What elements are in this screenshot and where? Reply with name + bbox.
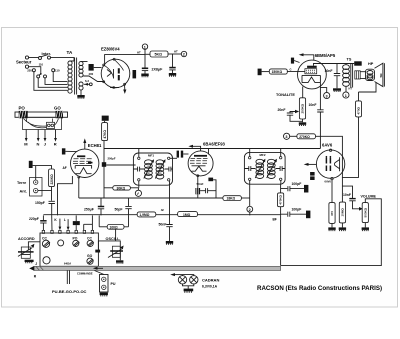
MF2 secondary capacitor xyxy=(276,166,285,171)
svg-text:R: R xyxy=(54,142,57,147)
bus B line xyxy=(43,214,280,216)
resistor 470 vertical xyxy=(329,203,335,228)
svg-text:AF: AF xyxy=(161,208,165,212)
svg-text:CC: CC xyxy=(87,236,92,240)
resistor 47K vertical xyxy=(102,121,108,141)
svg-text:BF: BF xyxy=(273,218,277,222)
wire V1 top to node1 xyxy=(105,55,145,65)
tube V3 internal electrodes xyxy=(190,156,208,171)
svg-text:1: 1 xyxy=(345,94,347,98)
grid stopper resistor 150K xyxy=(258,68,305,76)
tube V2 grid tag left xyxy=(62,148,77,154)
dial lamps arrow xyxy=(170,273,182,276)
lead-out arrow M xyxy=(24,130,28,147)
resistor 1M on bus B xyxy=(161,208,198,217)
accord variable capacitor xyxy=(18,242,40,258)
wire V2 grid return to left and bus B xyxy=(58,176,73,215)
antenna block box xyxy=(23,117,62,129)
plate capacitor 10nF xyxy=(325,64,341,89)
svg-text:6BA6/EF93: 6BA6/EF93 xyxy=(203,141,226,146)
wire to MF1 primary xyxy=(106,164,135,166)
svg-text:220pF: 220pF xyxy=(29,217,39,221)
tube V3 AVC arrow xyxy=(188,145,200,151)
svg-text:RACSON (Ets Radio Construction: RACSON (Ets Radio Constructions PARIS) xyxy=(257,285,382,292)
svg-text:3: 3 xyxy=(326,94,328,98)
svg-text:18KΩ: 18KΩ xyxy=(227,197,236,201)
svg-text:CC: CC xyxy=(42,236,47,240)
arrow L into gang xyxy=(64,218,70,230)
svg-text:EZ80/6V4: EZ80/6V4 xyxy=(101,47,120,52)
wire mains to switch xyxy=(29,57,39,59)
svg-text:ACCORD: ACCORD xyxy=(18,237,35,241)
svg-text:1,9MΩ: 1,9MΩ xyxy=(139,213,149,217)
filter capacitor 2x8uF first xyxy=(142,55,163,74)
tube V4 grid arrow xyxy=(304,163,317,166)
arrow on shaft left xyxy=(93,267,103,270)
capacitor 10nF to volume xyxy=(342,186,363,211)
resistor 5K xyxy=(145,51,168,57)
svg-text:GO: GO xyxy=(87,254,93,258)
wire resistor to node 2 xyxy=(168,53,181,55)
wire 220pF branch into gang xyxy=(29,215,47,230)
ground under volume xyxy=(362,227,369,231)
MF1 primary capacitor xyxy=(133,167,144,172)
svg-text:6AV6: 6AV6 xyxy=(325,180,332,184)
wire MF1 top-right to 6BA6 grid tag xyxy=(170,157,177,159)
capacitor 100pF lower BF xyxy=(273,207,307,221)
svg-text:Ant.: Ant. xyxy=(20,189,27,193)
svg-text:PO: PO xyxy=(73,236,78,240)
tube V1 anode plates xyxy=(118,68,120,80)
svg-text:110: 110 xyxy=(55,69,60,73)
wire V5 g1 down to tone pot xyxy=(302,87,304,98)
IF transformer MF2 box xyxy=(244,152,285,184)
coil L-GO on rod xyxy=(56,111,64,118)
antenna connector box xyxy=(47,122,55,128)
tuning gang block xyxy=(40,233,98,266)
tube V2 envelope xyxy=(71,149,99,177)
tube V5 grid mesh xyxy=(305,69,317,74)
wire MF2 bottom-left down to node 2 xyxy=(249,181,251,207)
svg-text:Terre: Terre xyxy=(17,181,26,185)
gang terminal row xyxy=(42,230,93,233)
svg-text:6,3V/0,1A: 6,3V/0,1A xyxy=(202,285,218,289)
svg-text:HT: HT xyxy=(349,87,353,91)
filter capacitor 2x8uF second xyxy=(169,54,175,73)
connector tag lower 100pF xyxy=(306,211,310,219)
wire volume top to BF lamp line xyxy=(281,199,382,266)
svg-text:470KΩ: 470KΩ xyxy=(279,194,283,204)
wire tap 130 to primary xyxy=(38,78,67,87)
resistor 100ohm oscillator xyxy=(99,215,128,229)
connector blob under 10nF xyxy=(333,88,341,92)
rectifier tube V1 envelope xyxy=(101,59,130,88)
svg-text:TA: TA xyxy=(67,50,73,55)
tube V5 6BM5 input arrow xyxy=(299,53,314,60)
connector tag above 47K xyxy=(102,116,109,121)
capacitor 50nF at MF1 return xyxy=(159,222,173,241)
lamps common to ground xyxy=(183,284,194,289)
wire MF1 bottom-left to node f xyxy=(138,181,140,188)
TS top connector tag xyxy=(354,61,362,65)
resistor 18K on bus A xyxy=(223,196,250,201)
svg-text:OSCILL.: OSCILL. xyxy=(106,237,121,241)
ground below TA xyxy=(77,95,84,99)
mains voltage tap terminals 110/130/220 xyxy=(27,62,60,78)
svg-text:VOLUME: VOLUME xyxy=(361,194,377,198)
ground under accord trimmer xyxy=(25,260,34,264)
ferrite rod xyxy=(15,112,68,117)
svg-text:270KΩ: 270KΩ xyxy=(299,135,310,139)
svg-text:10nF: 10nF xyxy=(343,193,351,197)
svg-text:5Ω: 5Ω xyxy=(379,73,383,78)
svg-text:20nF: 20nF xyxy=(278,108,286,112)
svg-text:150pF: 150pF xyxy=(35,201,45,205)
feedback wire 270K to 470ohm xyxy=(316,117,359,177)
svg-text:1MΩ: 1MΩ xyxy=(183,213,191,217)
connector tag HT xyxy=(89,64,94,71)
oscillator padding capacitor xyxy=(95,229,123,260)
connector tag upper 100pF xyxy=(304,185,308,193)
lead-out arrow N xyxy=(37,130,40,147)
tube V1 side tag xyxy=(133,70,137,78)
wire HT secondary lower xyxy=(83,76,103,82)
tube V1 cathode xyxy=(107,69,114,79)
transformer TA filament winding xyxy=(79,82,83,90)
tube V2 internal electrodes xyxy=(73,156,93,173)
connector tag above Terre xyxy=(29,161,33,168)
wire tap 220 to primary bottom xyxy=(34,72,68,91)
tube V5 plate xyxy=(307,66,317,68)
svg-text:250KΩ: 250KΩ xyxy=(301,103,305,113)
wire TS primary bottom to node 1 xyxy=(345,86,347,92)
antenna block internal wires xyxy=(24,119,59,128)
MF1 secondary capacitor xyxy=(165,167,173,172)
ground under 470 xyxy=(328,227,335,231)
tube V2 ECH81 top arrow xyxy=(83,138,86,149)
svg-text:30KΩ: 30KΩ xyxy=(117,186,126,190)
wire MF2 bottom-right to detector xyxy=(280,181,282,187)
speaker voice coil xyxy=(360,69,374,80)
wire tag to resistor 220K xyxy=(33,166,52,180)
svg-text:6AV6: 6AV6 xyxy=(322,143,333,148)
svg-text:100Ω: 100Ω xyxy=(110,225,119,229)
filament arrow 6.3V xyxy=(84,79,92,86)
svg-text:2: 2 xyxy=(183,53,185,57)
ground under first filter cap xyxy=(141,74,148,78)
node 3 terminal at cathode xyxy=(320,88,329,99)
svg-text:HT: HT xyxy=(174,49,178,53)
svg-text:47KΩ: 47KΩ xyxy=(103,130,107,139)
svg-text:50nF: 50nF xyxy=(159,222,167,226)
antenna series capacitor 150pF xyxy=(35,201,55,215)
transformer TA primary winding xyxy=(68,61,74,93)
svg-text:100pF: 100pF xyxy=(292,207,302,211)
tube V3 screen tag xyxy=(208,178,213,182)
svg-text:J: J xyxy=(35,262,37,266)
MF1 primary coil xyxy=(144,159,154,179)
svg-text:6465A: 6465A xyxy=(64,262,71,265)
svg-text:220: 220 xyxy=(27,69,32,73)
svg-text:50nF: 50nF xyxy=(197,182,204,186)
svg-text:400: 400 xyxy=(89,72,94,76)
MF2 primary coil xyxy=(255,159,265,179)
ground under 10M xyxy=(339,227,346,231)
AVC bus line xyxy=(104,148,320,150)
node 2 terminal xyxy=(174,49,187,56)
trimmer PO xyxy=(73,236,80,246)
node 2 terminal lower xyxy=(247,206,253,215)
svg-text:TS: TS xyxy=(347,58,352,62)
decoupling capacitor 250uF xyxy=(84,198,104,215)
wire MF1 top-left to AVC bus xyxy=(138,149,140,158)
pickup terminal block PU xyxy=(95,271,116,293)
lead-out arrow J xyxy=(44,130,47,147)
svg-text:PO: PO xyxy=(19,106,26,111)
wire Ant to antenna cap xyxy=(38,187,52,201)
ground under lamps xyxy=(184,289,194,293)
svg-text:PU: PU xyxy=(111,282,116,286)
IF transformer MF1 box xyxy=(133,153,172,185)
transformer TA secondary HT winding xyxy=(79,61,83,77)
wire V3 plate to bus xyxy=(208,149,210,155)
svg-text:MF1: MF1 xyxy=(148,154,154,158)
tone capacitor 20nF xyxy=(278,108,303,122)
tube V5 envelope xyxy=(298,60,327,89)
svg-text:3: 3 xyxy=(285,135,287,139)
svg-text:ECH81: ECH81 xyxy=(88,143,102,148)
node f terminal xyxy=(135,188,141,197)
svg-text:470: 470 xyxy=(330,211,334,216)
tone potentiometer 250K xyxy=(299,98,305,123)
switch Inter xyxy=(39,51,52,59)
MF1 secondary coil xyxy=(155,159,165,179)
svg-text:2X8μF: 2X8μF xyxy=(152,68,164,72)
resistor 1.9M on bus B xyxy=(137,212,156,217)
tube V3 grid tag xyxy=(177,151,189,158)
tube V5 tag upper-left xyxy=(291,58,300,64)
TS secondary winding xyxy=(355,71,360,79)
trimmer OC xyxy=(87,236,94,246)
wire MF2 top-left to plate bus xyxy=(249,149,251,157)
TS primary coil xyxy=(343,64,350,87)
node 1 terminal xyxy=(137,44,148,55)
svg-text:6BM5/AP5: 6BM5/AP5 xyxy=(315,53,336,58)
speaker cone xyxy=(375,63,385,86)
cadran label xyxy=(202,277,219,288)
svg-text:CADRAN: CADRAN xyxy=(202,277,219,282)
lead-out arrow R xyxy=(54,130,57,147)
svg-text:200pF: 200pF xyxy=(108,157,116,161)
tube V4 envelope xyxy=(316,150,344,178)
svg-text:G: G xyxy=(290,68,292,72)
svg-text:MF2: MF2 xyxy=(260,153,266,157)
resistor 470ohm vertical xyxy=(356,92,362,117)
ground under second filter cap xyxy=(169,73,176,77)
tube V3 cathode network xyxy=(195,176,216,198)
dial lamp 2 xyxy=(183,275,199,284)
wire MF2 top-right to diode bus xyxy=(280,149,282,157)
wire tap 110a to primary xyxy=(53,72,67,82)
arrow K into gang xyxy=(54,218,61,230)
bus A line xyxy=(79,197,223,199)
svg-text:10nF: 10nF xyxy=(325,69,333,73)
resistor 270K xyxy=(297,134,316,139)
svg-text:100pF: 100pF xyxy=(292,182,302,186)
MF2 secondary coil xyxy=(267,159,277,179)
svg-text:5KΩ: 5KΩ xyxy=(155,53,163,57)
MF2 primary capacitor xyxy=(244,166,255,171)
resistor 10M vertical xyxy=(339,177,345,227)
tube V4 tag lower-left xyxy=(310,172,315,180)
wire mains tap 2 xyxy=(29,67,41,76)
shaft support xyxy=(67,270,69,284)
wire switch to TA primary top xyxy=(51,58,75,61)
svg-text:500KΩ: 500KΩ xyxy=(363,207,367,217)
trimmer CC1 xyxy=(42,236,50,247)
node 1 terminal at TS xyxy=(343,87,353,99)
coil L-PO on rod xyxy=(19,111,28,118)
wire HT secondary top to EZ80 xyxy=(81,61,88,63)
wire TA bottom to ground xyxy=(80,90,82,95)
svg-text:AF: AF xyxy=(63,166,67,170)
cathode resistor 30K xyxy=(104,186,138,191)
capacitor 50pF xyxy=(115,198,132,215)
wire tap 110b to primary xyxy=(45,78,68,84)
resistor 220K vertical xyxy=(49,169,55,187)
tube V3 envelope xyxy=(188,151,213,176)
svg-text:110: 110 xyxy=(39,62,44,66)
mains terminals Secteur xyxy=(16,56,32,68)
svg-text:TONALITE: TONALITE xyxy=(276,93,295,97)
wire tag to EZ80 plate xyxy=(94,67,102,69)
wire 47K down to bus A xyxy=(103,141,105,198)
svg-text:N: N xyxy=(37,142,40,147)
tuning shaft bar xyxy=(29,266,280,271)
wire MF1 bottom-right down through buses xyxy=(169,181,171,224)
svg-text:HT: HT xyxy=(137,50,141,54)
ground under oscillator trimmer xyxy=(116,260,123,263)
svg-text:220KΩ: 220KΩ xyxy=(50,174,54,185)
wire BF node down to lamp line xyxy=(280,215,282,265)
svg-text:L: L xyxy=(64,218,66,222)
node 3 terminal left xyxy=(284,133,297,139)
svg-text:Secteur: Secteur xyxy=(16,60,32,65)
TS core xyxy=(351,63,353,88)
svg-text:250μF: 250μF xyxy=(84,207,94,211)
padder capacitor black xyxy=(73,215,80,230)
gang circle plain top xyxy=(58,240,64,246)
trimmer GO xyxy=(87,254,94,264)
wire V5 plate to TS xyxy=(314,64,355,66)
transformer TA core xyxy=(75,58,77,95)
ground under 50nF xyxy=(166,241,173,245)
svg-text:COMMANDE: COMMANDE xyxy=(77,272,93,276)
ground under PU xyxy=(100,293,108,297)
svg-text:PU-BE-GO-PO-OC: PU-BE-GO-PO-OC xyxy=(52,289,87,294)
tube V1 bottom heater wires xyxy=(110,85,126,94)
junction tag on triode plate line xyxy=(102,162,106,167)
resistor 470K vertical xyxy=(278,186,284,215)
svg-text:10MΩ: 10MΩ xyxy=(341,208,345,217)
svg-text:HP: HP xyxy=(368,62,374,66)
tube V5 cathode xyxy=(302,75,320,82)
svg-text:1: 1 xyxy=(144,45,146,49)
svg-text:2: 2 xyxy=(249,208,251,212)
wire antenna line into gang xyxy=(51,215,53,230)
tube V4 internal electrodes xyxy=(326,149,340,180)
gang circle plain bottom xyxy=(43,257,50,264)
svg-text:50pF: 50pF xyxy=(115,207,123,211)
svg-text:6,3: 6,3 xyxy=(85,79,89,83)
svg-text:GO: GO xyxy=(54,106,61,111)
wire V4 cathode to resistor 470 xyxy=(331,180,333,203)
svg-text:470Ω: 470Ω xyxy=(357,106,361,114)
wire V2 cathode down to bus A xyxy=(78,177,80,198)
coupling capacitor 50nF grid xyxy=(309,83,324,149)
feedback tap from voice coil xyxy=(359,83,377,93)
capacitor 100pF upper xyxy=(281,182,304,191)
svg-text:150KΩ: 150KΩ xyxy=(272,70,283,74)
wire right taps into gang xyxy=(84,215,93,230)
svg-text:J: J xyxy=(44,142,46,147)
terminal block Terre / Ant xyxy=(17,178,42,197)
svg-text:10nF: 10nF xyxy=(309,103,317,107)
dial lamp 1 xyxy=(178,275,186,284)
volume potentiometer 500K xyxy=(361,194,377,227)
ground under tone pot xyxy=(299,122,306,126)
tube V1 pin terminals xyxy=(103,58,126,85)
